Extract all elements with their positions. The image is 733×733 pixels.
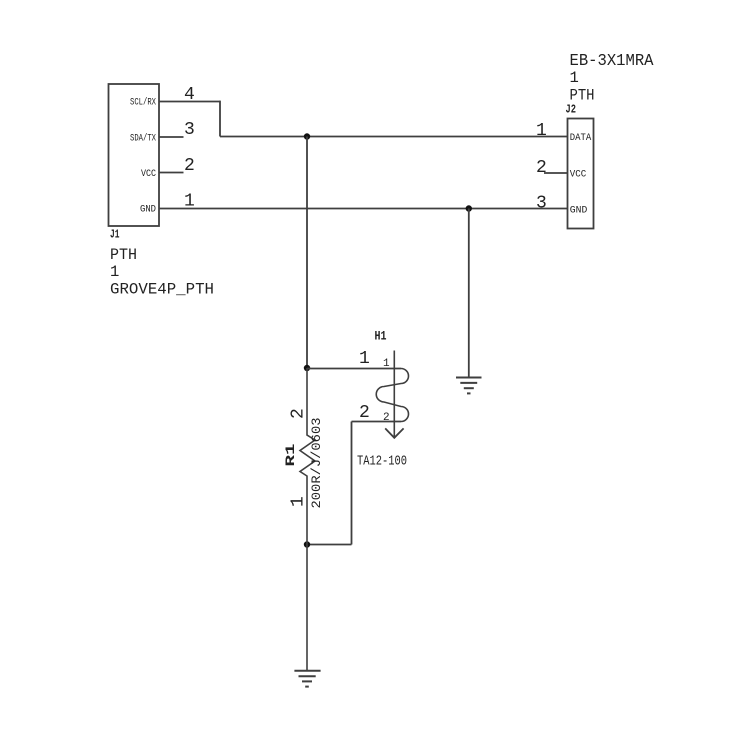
junction node DATA <box>304 133 310 139</box>
label H1 <box>375 329 387 344</box>
pin label SCL/RX <box>130 96 156 108</box>
pin number 2 (R1) <box>289 408 309 419</box>
label 1 (J2) <box>570 69 579 87</box>
wire H1 pin 2 <box>352 421 402 423</box>
wire H1 pin 1 <box>307 368 401 370</box>
pin number 3 (J1) <box>184 120 195 140</box>
svg-text:2: 2 <box>184 156 195 176</box>
wire corner down <box>219 101 221 137</box>
pin label GND (J1) <box>140 203 156 215</box>
label R1 <box>283 443 298 466</box>
pin number 1 (H1 small) <box>383 358 390 370</box>
pin number 1 (H1 big) <box>359 349 370 369</box>
svg-text:PTH: PTH <box>110 246 137 264</box>
pin number 1 (J2) <box>536 121 547 141</box>
connector J2 <box>568 119 594 229</box>
svg-text:R1: R1 <box>283 443 298 466</box>
ground symbol right <box>456 378 482 394</box>
wire down from H1 pin2 <box>351 422 353 545</box>
label 1 (J1) <box>110 263 119 281</box>
pin label GND (J2) <box>570 204 588 216</box>
connector J1 <box>109 84 160 226</box>
svg-text:J1: J1 <box>110 228 120 242</box>
pin number 2 (H1 big) <box>359 403 370 423</box>
ground symbol bottom <box>294 671 320 687</box>
svg-text:3: 3 <box>536 194 547 214</box>
wire pin4 J1 to corner <box>159 101 220 103</box>
svg-text:SCL/RX: SCL/RX <box>130 96 156 108</box>
label PTH (J2) <box>570 87 595 105</box>
label PTH (J1) <box>110 246 137 264</box>
label GROVE4P_PTH <box>110 281 214 299</box>
pin label VCC (J2) <box>570 168 587 180</box>
svg-text:3: 3 <box>184 120 195 140</box>
svg-text:1: 1 <box>359 349 370 369</box>
wire to R1 bottom <box>307 544 352 546</box>
svg-text:SDA/TX: SDA/TX <box>130 132 156 144</box>
wire stub VCC J2 <box>544 172 568 174</box>
svg-text:H1: H1 <box>375 329 387 344</box>
value label 200R/J/0603 <box>309 418 324 509</box>
svg-text:1: 1 <box>110 263 119 281</box>
svg-text:GROVE4P_PTH: GROVE4P_PTH <box>110 281 214 299</box>
svg-text:2: 2 <box>359 403 370 423</box>
svg-text:1: 1 <box>536 121 547 141</box>
wire stub SDA/TX <box>159 136 184 138</box>
svg-text:TA12-100: TA12-100 <box>357 454 407 470</box>
pin label DATA <box>570 132 592 144</box>
svg-text:VCC: VCC <box>570 168 587 180</box>
pin number 3 (J2) <box>536 194 547 214</box>
svg-text:200R/J/0603: 200R/J/0603 <box>309 418 324 509</box>
resistor R1 <box>300 368 315 671</box>
pin number 2 (H1 small) <box>383 412 390 424</box>
pin number 1 (R1) <box>289 496 309 507</box>
label J2 <box>566 103 577 117</box>
pin number 2 (J1) <box>184 156 195 176</box>
wire main vertical from DATA junction <box>306 137 308 369</box>
svg-text:GND: GND <box>140 203 156 215</box>
pin number 2 (J2) <box>536 158 547 178</box>
transformer H1 <box>376 351 408 438</box>
junction node GND <box>466 205 472 211</box>
pin number 1 (J1) <box>184 192 195 212</box>
wire GND junction down <box>468 209 470 378</box>
label J1 <box>110 228 120 242</box>
svg-text:2: 2 <box>536 158 547 178</box>
svg-text:1: 1 <box>383 358 390 370</box>
svg-text:1: 1 <box>289 496 309 507</box>
svg-text:1: 1 <box>570 69 579 87</box>
wire GND net horizontal <box>159 208 568 210</box>
pin label SDA/TX <box>130 132 156 144</box>
junction node H1 pin1 <box>304 365 310 371</box>
junction node R1 bottom <box>304 541 310 547</box>
wire DATA net horizontal <box>220 136 568 138</box>
value label TA12-100 <box>357 454 407 470</box>
svg-text:GND: GND <box>570 204 588 216</box>
label EB-3X1MRA <box>570 52 655 71</box>
pin number 4 (J1) <box>184 85 195 105</box>
svg-text:2: 2 <box>289 408 309 419</box>
svg-text:EB-3X1MRA: EB-3X1MRA <box>570 52 655 71</box>
svg-text:VCC: VCC <box>141 168 156 180</box>
wire stub VCC J1 <box>159 172 184 174</box>
svg-text:DATA: DATA <box>570 132 592 144</box>
pin label VCC (J1) <box>141 168 156 180</box>
svg-text:J2: J2 <box>566 103 577 117</box>
